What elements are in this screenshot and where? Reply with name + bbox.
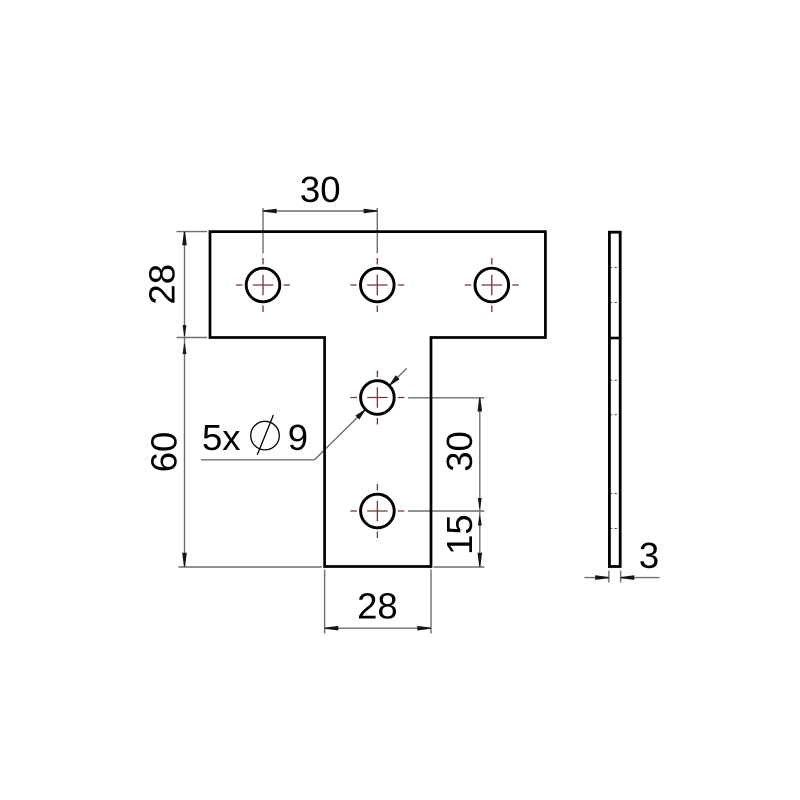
dimension 30 right: arrow bottom <box>478 498 482 509</box>
side view hidden hole lines <box>610 268 620 529</box>
hole H1 <box>246 268 280 302</box>
dimension 28 bottom: extension lines <box>325 570 431 634</box>
dimension 28/60 left: dimension line <box>184 232 186 567</box>
svg-text:15: 15 <box>439 514 480 555</box>
dimension 28 bottom: arrow right <box>417 626 431 631</box>
centerline H1 <box>236 258 290 312</box>
leader 5x dia9: shoulder line <box>201 368 407 460</box>
svg-text:28: 28 <box>357 586 398 627</box>
dimension 28 left + 60 left: extension lines <box>177 232 323 567</box>
dimension 28 left: arrow top <box>182 232 187 246</box>
dimension 28 bottom: dimension line <box>325 627 431 629</box>
svg-text:9: 9 <box>288 417 308 458</box>
centerline H4 <box>350 371 404 425</box>
dimension 3 side: arrow left (points right) <box>595 575 609 580</box>
hole H2 <box>361 268 395 302</box>
diameter symbol slash <box>257 415 273 455</box>
dimension 30 top: arrow right <box>364 209 378 214</box>
hole H3 <box>475 268 509 302</box>
dimension 15 right: arrow bottom <box>478 553 483 567</box>
dimension 30 top: extension lines <box>263 208 377 254</box>
centerline H5 <box>350 484 404 538</box>
svg-text:3: 3 <box>639 535 659 576</box>
leader 5x dia9: diagonal line <box>315 410 366 460</box>
hole H4 <box>361 381 395 415</box>
dimension 30/15 right: extension lines <box>408 398 484 567</box>
dimension 28 bottom: arrow left <box>325 626 339 631</box>
dimension 30 top: arrow left <box>263 209 277 214</box>
dimension 60 left: arrow top <box>183 344 187 354</box>
svg-text:30: 30 <box>439 431 480 472</box>
dimension 3 side: extension lines <box>585 571 660 583</box>
dimension 3 side: arrow right (points left) <box>621 575 635 580</box>
dimension 30 top: dimension line <box>263 210 377 212</box>
dimension 30/15 right: dimension line <box>479 398 481 567</box>
svg-text:60: 60 <box>144 432 185 473</box>
dimension 28 left: arrow bottom <box>183 325 187 336</box>
centerline H3 <box>465 258 519 312</box>
svg-text:30: 30 <box>300 169 341 210</box>
leader 5x dia9: opposite segment <box>390 368 407 385</box>
T-plate outline (front view) <box>210 232 545 567</box>
side view plate <box>609 232 620 566</box>
dimension 30 right: arrow top <box>478 398 483 412</box>
svg-text:28: 28 <box>142 264 183 305</box>
hole H5 <box>361 494 395 528</box>
dimension 60 left: arrow bottom <box>182 553 187 567</box>
dimension 15 right: arrow top <box>478 516 482 526</box>
dimension 3 side: dimension line right <box>621 577 660 579</box>
side view plate/leg junction line <box>608 337 622 340</box>
svg-text:5x: 5x <box>202 417 241 458</box>
diameter symbol circle <box>251 421 280 450</box>
leader 5x dia9: arrow at lower-left rim (points up-right) <box>355 408 367 420</box>
centerline H2 <box>350 258 404 312</box>
dimension 3 side: dimension line left <box>585 577 609 579</box>
leader 5x dia9: arrow at upper-right rim (points down-left) <box>388 375 400 387</box>
